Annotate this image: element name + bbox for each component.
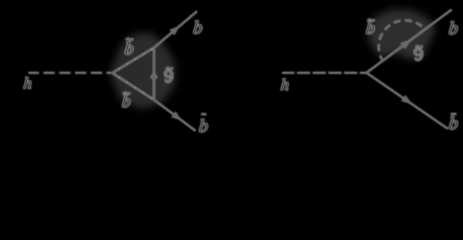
- wire: b quark line with gluino segment (right) (halo pass): [367, 10, 452, 73]
- wash over left loop cluster (triangle, labels, gluino): [110, 33, 175, 109]
- node b label (right): [449, 22, 458, 35]
- wire: sbottom dashed line, higgs vertex to bottom (left loop) (halo pass): [112, 73, 154, 100]
- wire: gluino vertical line (left) (halo pass): [153, 48, 155, 100]
- node bbar label (left) (halo pass): [199, 119, 208, 132]
- node b label (left): [194, 21, 203, 34]
- arrow on bbar quark line (right) (halo pass): [402, 96, 410, 103]
- wire: sbottom dashed line, higgs vertex to top (left loop) (halo pass): [112, 48, 154, 73]
- arrow on b quark/gluino line (right) (halo pass): [401, 41, 409, 48]
- arrow on bbar quark line (left) (halo pass): [172, 112, 180, 119]
- node bbar label (right): [449, 117, 458, 130]
- wire: higgs dashed propagator h (right): [282, 72, 367, 74]
- node h label (right): [281, 79, 289, 90]
- node sbottom label (b tilde, right) (halo pass): [366, 22, 374, 34]
- node gluino label (g tilde, right): [415, 46, 423, 60]
- node b label (right) (halo pass): [449, 22, 458, 35]
- node h label (left): [24, 77, 32, 88]
- node sbottom label upper-left (b tilde): [125, 42, 133, 54]
- node h label (right) (halo pass): [281, 79, 289, 90]
- arrow on b quark line (left) (halo pass): [170, 27, 178, 34]
- arrow on bbar quark line (right): [402, 96, 410, 103]
- arrow on gluino line (up): [151, 73, 157, 80]
- wire: higgs dashed propagator h (left) (halo pass): [29, 72, 112, 74]
- wire: bbar quark line to lower right (left): [154, 100, 195, 131]
- arrow on bbar quark line (left): [172, 112, 180, 119]
- node bbar label (right) (halo pass): [449, 117, 458, 130]
- wire: sbottom dashed arc over b line (right) (halo pass): [379, 20, 425, 61]
- wire: sbottom dashed arc over b line (right): [379, 20, 425, 61]
- arrow on b quark line (left): [170, 27, 178, 34]
- node gluino label (g tilde, right) (halo pass): [415, 46, 423, 60]
- wire: sbottom dashed line, higgs vertex to top (left loop): [112, 48, 154, 73]
- wire: bbar quark line to lower right (right) (halo pass): [367, 73, 448, 129]
- wire: higgs dashed propagator h (left): [29, 72, 112, 74]
- node sbottom label lower-left (b tilde): [122, 95, 130, 107]
- node gluino label (g tilde, left) (halo pass): [165, 68, 173, 82]
- wash over right bubble cluster (arc, b-tilde, g-tilde labels): [367, 9, 436, 60]
- wire: higgs dashed propagator h (right) (halo pass): [282, 72, 367, 74]
- wire: b quark line with gluino segment (right): [367, 10, 452, 73]
- arrow on gluino line (up) (halo pass): [151, 73, 157, 80]
- arrow on b quark/gluino line (right): [401, 41, 409, 48]
- node b label (left) (halo pass): [194, 21, 203, 34]
- node sbottom label (b tilde, right): [366, 22, 374, 34]
- wire: sbottom dashed line, higgs vertex to bottom (left loop): [112, 73, 154, 100]
- node gluino label (g tilde, left): [165, 68, 173, 82]
- wire: b quark line to upper right (left) (halo pass): [154, 11, 197, 47]
- node h label (left) (halo pass): [24, 77, 32, 88]
- wire: b quark line to upper right (left): [154, 11, 197, 47]
- node bbar label (left): [199, 119, 208, 132]
- wire: gluino vertical line (left): [153, 48, 155, 100]
- wire: bbar quark line to lower right (left) (halo pass): [154, 100, 195, 131]
- node sbottom label lower-left (b tilde) (halo pass): [122, 95, 130, 107]
- node sbottom label upper-left (b tilde) (halo pass): [125, 42, 133, 54]
- wire: bbar quark line to lower right (right): [367, 73, 448, 129]
